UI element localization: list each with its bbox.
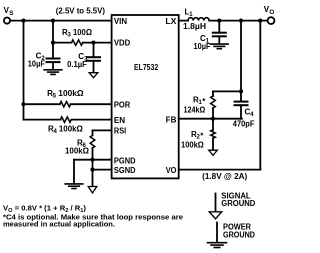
svg-text:0.1µF: 0.1µF xyxy=(67,60,87,69)
resistor R3 xyxy=(72,40,83,45)
svg-text:FB: FB xyxy=(166,116,177,125)
svg-text:100kΩ: 100kΩ xyxy=(181,141,204,150)
node rail junction xyxy=(239,89,243,93)
svg-text:LX: LX xyxy=(165,17,177,26)
wire SGND row xyxy=(93,169,112,171)
power ground symbol left xyxy=(65,183,83,185)
ground below C1 xyxy=(211,43,229,45)
resistor R2 xyxy=(212,119,214,130)
svg-text:VIN: VIN xyxy=(114,17,127,26)
svg-text:POR: POR xyxy=(114,100,131,109)
wire top rail VS to VIN xyxy=(10,20,111,22)
wire POR row xyxy=(24,103,60,105)
node input junction left xyxy=(21,19,25,23)
capacitor C4 xyxy=(235,101,248,103)
capacitor C2 xyxy=(52,21,54,58)
node VDD right xyxy=(91,41,95,45)
svg-text:(1.8V @ 2A): (1.8V @ 2A) xyxy=(202,172,247,181)
regulator U1 EL7532 body xyxy=(112,15,179,178)
node C1 branch xyxy=(217,19,221,23)
node input junction C2 branch xyxy=(51,19,55,23)
wire VDD row xyxy=(53,42,72,44)
svg-text:GROUND: GROUND xyxy=(221,199,255,208)
signal ground arrow below R2 xyxy=(209,150,218,155)
resistor R6 xyxy=(92,130,94,135)
wire RSI row xyxy=(93,129,112,131)
svg-text:EN: EN xyxy=(114,116,126,125)
node FB tee xyxy=(211,117,215,121)
node R1/C4 branch xyxy=(239,19,243,23)
svg-text:100Ω: 100Ω xyxy=(73,28,93,37)
ground below C2 xyxy=(44,69,62,71)
signal ground arrow below SGND xyxy=(88,187,97,194)
node VO return xyxy=(258,19,262,23)
svg-text:10µF: 10µF xyxy=(194,42,211,51)
capacitor C3 xyxy=(93,43,95,57)
svg-text:124kΩ: 124kΩ xyxy=(184,106,206,115)
svg-text:S: S xyxy=(9,10,13,17)
signal ground arrow below C3 xyxy=(89,73,98,78)
node POR tee xyxy=(21,102,25,106)
wire left vertical to POR/EN xyxy=(23,21,25,120)
svg-text:SGND: SGND xyxy=(114,166,136,175)
svg-text:100kΩ: 100kΩ xyxy=(65,147,90,156)
wire EN row xyxy=(24,119,61,121)
svg-text:VDD: VDD xyxy=(114,39,131,48)
svg-text:GROUND: GROUND xyxy=(223,231,255,240)
terminal VS xyxy=(4,18,10,24)
resistor R4 xyxy=(61,117,72,122)
svg-text:RSI: RSI xyxy=(114,127,126,136)
svg-text:measured in actual application: measured in actual application. xyxy=(3,220,115,229)
wire branch vertical to R1/C4 xyxy=(240,21,242,101)
terminal VO xyxy=(268,17,275,24)
wire VO return vertical xyxy=(259,21,261,170)
resistor R1 xyxy=(212,91,214,96)
wire LX row xyxy=(179,20,188,22)
legend signal ground symbol xyxy=(215,194,217,212)
svg-text:EL7532: EL7532 xyxy=(134,63,159,72)
svg-text:10µF: 10µF xyxy=(28,59,45,68)
svg-text:(2.5V to 5.5V): (2.5V to 5.5V) xyxy=(56,6,106,15)
wire R1 C4 top rail xyxy=(213,90,241,92)
node VDD left xyxy=(51,41,55,45)
capacitor C1 xyxy=(218,21,220,32)
legend power ground symbol xyxy=(216,223,218,243)
svg-text:1.8µH: 1.8µH xyxy=(183,22,206,31)
wire FB row xyxy=(179,118,242,120)
node PGND tee xyxy=(90,158,94,162)
svg-text:O: O xyxy=(269,9,274,16)
svg-text:100kΩ: 100kΩ xyxy=(58,89,84,98)
wire PGND row xyxy=(74,159,112,161)
wire LX to VO terminal xyxy=(209,20,267,22)
svg-text:100kΩ: 100kΩ xyxy=(59,125,84,134)
inductor L1 xyxy=(188,18,209,21)
resistor R5 xyxy=(60,102,71,107)
svg-text:470pF: 470pF xyxy=(233,120,255,129)
wire PGND down xyxy=(73,160,75,184)
svg-text:PGND: PGND xyxy=(114,156,136,165)
wire VO pin row xyxy=(179,169,261,171)
node SGND tee xyxy=(90,168,94,172)
svg-text:VO: VO xyxy=(166,166,177,175)
